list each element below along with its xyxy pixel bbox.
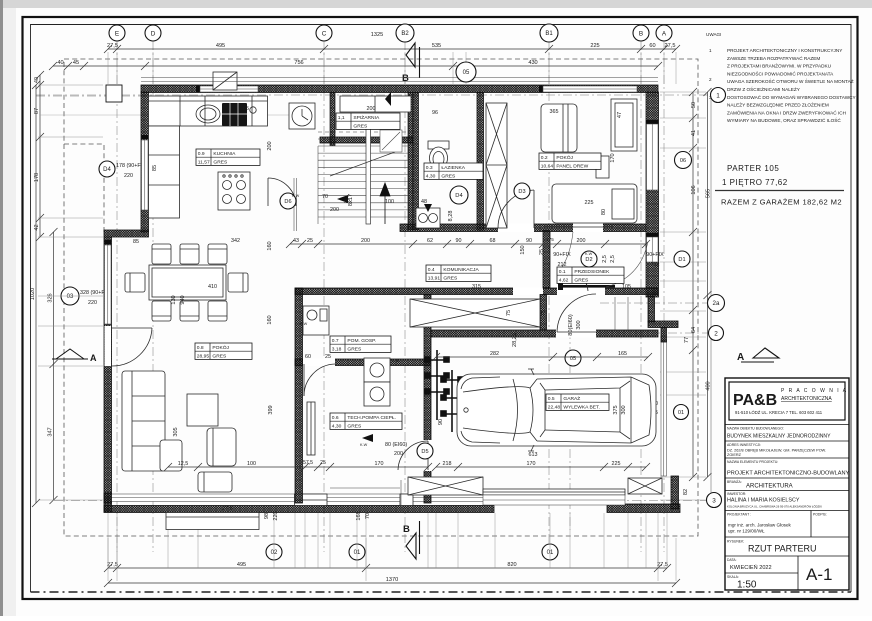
svg-text:D5: D5 (421, 449, 428, 455)
extension lines right (660, 92, 706, 500)
bottom axis bubble 02 (266, 544, 282, 560)
title row data/skala/A-1 (725, 555, 849, 557)
svg-text:POKÓJ: POKÓJ (212, 344, 229, 351)
window bubble 06 (675, 152, 692, 169)
svg-text:GRES: GRES (441, 173, 456, 179)
entry sill line (330, 480, 401, 512)
right axis bubble 1 (711, 88, 726, 103)
bottom wall pier right white (400, 494, 413, 506)
svg-text:48: 48 (421, 199, 427, 205)
svg-text:0.3: 0.3 (426, 165, 433, 171)
title row inwestor (725, 490, 849, 492)
svg-text:90+FIX: 90+FIX (646, 252, 664, 258)
washer units (364, 358, 390, 406)
svg-text:ZGIERZ: ZGIERZ (727, 453, 742, 457)
spizarnia partition (330, 93, 335, 146)
svg-text:4,30: 4,30 (332, 423, 342, 429)
svg-text:mgr inż. arch. Jarosław Głose: mgr inż. arch. Jarosław Głosek (728, 523, 792, 528)
svg-text:756: 756 (294, 60, 303, 66)
garage right wall top pier (661, 328, 667, 343)
svg-text:GRES: GRES (212, 353, 227, 359)
terrace slab (166, 513, 259, 530)
svg-text:170: 170 (375, 461, 384, 467)
svg-text:60: 60 (305, 354, 311, 360)
corridor wall opening at entry (557, 288, 605, 296)
svg-text:B1: B1 (545, 31, 553, 37)
svg-text:PANEL DREW: PANEL DREW (556, 163, 588, 169)
kitchen sink (196, 105, 220, 123)
svg-text:INWESTOR:: INWESTOR: (727, 492, 746, 496)
svg-text:80: 80 (601, 209, 607, 215)
svg-text:02: 02 (271, 550, 278, 556)
svg-text:1: 1 (716, 92, 720, 99)
door D2 swing (563, 268, 588, 291)
svg-text:64: 64 (691, 327, 697, 333)
svg-text:KOMUNIKACJA: KOMUNIKACJA (443, 267, 479, 273)
exterior wall right step-out vertical (648, 296, 655, 322)
grid axis line 1 horizontal (36, 94, 711, 96)
svg-text:326: 326 (48, 293, 54, 302)
svg-text:0.6: 0.6 (332, 415, 339, 421)
svg-text:DRZW Z OŚCIEŻNICAMI NALEŻY: DRZW Z OŚCIEŻNICAMI NALEŻY (727, 85, 801, 92)
svg-text:PARTER 105: PARTER 105 (727, 164, 779, 173)
left dim chain inner (34, 71, 44, 241)
svg-text:399: 399 (268, 405, 274, 414)
corridor wall opening left (513, 288, 543, 296)
small black arrow top stairs (385, 92, 391, 106)
svg-text:100: 100 (247, 461, 256, 467)
svg-text:105: 105 (622, 284, 631, 290)
terrace door opening left (105, 326, 112, 366)
svg-text:06: 06 (680, 158, 686, 164)
svg-text:90: 90 (526, 238, 532, 244)
svg-text:27,5: 27,5 (222, 506, 233, 512)
svg-text:D1: D1 (678, 257, 685, 263)
svg-text:GRES: GRES (443, 275, 458, 281)
svg-text:GARAŻ: GARAŻ (563, 395, 580, 402)
svg-text:E: E (115, 30, 119, 37)
exterior wall bottom living room glazing (111, 494, 494, 502)
svg-text:25: 25 (325, 354, 331, 360)
interior wall pom.gosp horizontal (295, 359, 430, 366)
svg-text:170: 170 (527, 461, 536, 467)
svg-text:200: 200 (330, 207, 339, 213)
svg-text:212: 212 (558, 262, 567, 268)
armchair (207, 428, 236, 466)
svg-text:80(EI60): 80(EI60) (568, 314, 574, 336)
svg-text:11,57: 11,57 (198, 159, 210, 165)
bathroom door triangle (424, 204, 432, 212)
interior dims row mid (286, 238, 650, 248)
bathroom washbasin (416, 208, 440, 228)
interior wall przedsionek left (543, 231, 550, 289)
svg-text:RZUT PARTERU: RZUT PARTERU (748, 544, 817, 554)
right axis bubble 2 (709, 326, 724, 341)
terrace door leaf and swing (112, 328, 152, 366)
svg-text:27,5: 27,5 (657, 562, 668, 568)
title row nazwa obiektu (725, 424, 849, 426)
svg-text:342: 342 (231, 238, 240, 244)
bottom wall pier mid white (295, 494, 328, 506)
svg-text:535: 535 (432, 43, 441, 49)
svg-text:2: 2 (709, 77, 712, 82)
left dim overall 1020 (30, 81, 40, 507)
svg-text:41: 41 (691, 130, 697, 136)
svg-text:K.W: K.W (585, 252, 593, 256)
svg-text:01: 01 (547, 550, 554, 556)
svg-text:PODPIS:: PODPIS: (813, 513, 827, 517)
door arc bedroom right window D1 (606, 242, 648, 287)
porch column centerlines (36, 95, 150, 97)
svg-text:218: 218 (443, 461, 452, 467)
garage door panel (483, 489, 625, 495)
svg-text:D4: D4 (103, 167, 111, 173)
void crossed box above garage (410, 299, 540, 327)
svg-text:10,64: 10,64 (541, 163, 554, 169)
svg-text:BRANŻA:: BRANŻA: (727, 479, 742, 484)
svg-text:B: B (403, 524, 410, 535)
svg-text:565: 565 (706, 189, 712, 198)
heat pump symbol 2 (441, 370, 463, 432)
svg-text:PROJEKTANT :: PROJEKTANT : (727, 513, 751, 517)
svg-text:65: 65 (243, 106, 249, 112)
svg-text:200: 200 (367, 106, 376, 112)
svg-text:NIEZGODNOŚCI POWIADOMIĆ PROJEK: NIEZGODNOŚCI POWIADOMIĆ PROJEKTANATA (727, 69, 834, 76)
garage lintel left (408, 477, 483, 495)
svg-text:B2: B2 (401, 31, 409, 37)
ottoman bench (198, 472, 232, 492)
svg-text:WYMIARY NA BUDOWIE, ORAZ SPRA: WYMIARY NA BUDOWIE, ORAZ SPRAWDZIĆ ILOŚĆ (727, 116, 841, 123)
svg-text:4,30: 4,30 (426, 173, 436, 179)
svg-text:43: 43 (293, 238, 299, 244)
svg-text:D4: D4 (455, 193, 463, 199)
svg-text:1370: 1370 (386, 577, 398, 583)
svg-text:225: 225 (590, 43, 599, 49)
svg-text:05: 05 (463, 70, 470, 76)
exterior wall right step-out horizontal (648, 321, 678, 328)
bottom axis bubble 01b (542, 544, 558, 560)
D2 window swing arc (559, 232, 573, 271)
svg-text:3: 3 (712, 497, 716, 504)
door D6 kitchen (268, 178, 296, 206)
bedroom bed 2 (552, 184, 637, 223)
kitchen corridor thin partition (294, 178, 297, 231)
top dim chain 1 (104, 43, 680, 53)
svg-text:165: 165 (618, 351, 627, 357)
title row adres (725, 440, 849, 442)
svg-text:B: B (402, 73, 409, 84)
svg-text:96: 96 (432, 110, 438, 116)
stairs break line (330, 152, 395, 176)
svg-text:GRES: GRES (347, 346, 362, 352)
dining chair left (125, 273, 145, 292)
room label PRZEDSIONEK (557, 267, 624, 283)
exterior wall bottom sill hatch (104, 506, 494, 513)
grid bubble D (145, 25, 161, 41)
right dim chain inner (689, 88, 697, 481)
svg-text:57,5: 57,5 (303, 460, 313, 466)
window top kitchen (200, 86, 258, 92)
svg-text:375: 375 (613, 405, 619, 414)
bedroom wardrobe top right (611, 99, 637, 151)
svg-text:28,95: 28,95 (197, 353, 210, 359)
interior wall bath left vertical (413, 93, 419, 230)
title row branza (725, 477, 849, 479)
svg-text:GRES: GRES (353, 123, 368, 129)
extension lines bottom (108, 513, 667, 568)
exterior wall left upper (141, 92, 149, 232)
door D5 arc (398, 441, 428, 470)
exterior wall right (646, 92, 659, 297)
svg-text:upr. nr 129/00/WŁ: upr. nr 129/00/WŁ (728, 529, 765, 534)
door garage-house arc (557, 294, 596, 332)
window left D4 (142, 140, 149, 210)
svg-text:01: 01 (354, 550, 361, 556)
svg-text:225: 225 (612, 461, 621, 467)
svg-text:300: 300 (576, 320, 582, 329)
svg-text:75: 75 (506, 310, 512, 316)
bedroom window D2 opening (573, 224, 603, 233)
svg-text:820: 820 (507, 562, 516, 568)
interior wall garage left vertical (424, 295, 431, 504)
garage apron (483, 495, 625, 505)
svg-text:27,5: 27,5 (107, 562, 118, 568)
svg-text:2: 2 (714, 330, 718, 337)
svg-text:GRES: GRES (347, 423, 362, 429)
svg-text:87: 87 (34, 108, 40, 114)
svg-text:ARCHITEKTURA: ARCHITEKTURA (746, 484, 793, 490)
door bubble D6 (280, 193, 296, 209)
svg-text:12,5: 12,5 (178, 461, 189, 467)
window bubble 05 top (456, 62, 476, 82)
svg-text:613: 613 (529, 452, 538, 458)
svg-text:160: 160 (267, 315, 273, 324)
exterior wall left lower (104, 237, 112, 503)
svg-text:42: 42 (34, 224, 40, 230)
svg-text:KWIECIEŃ 2022: KWIECIEŃ 2022 (730, 564, 772, 571)
svg-text:PRZEDSIONEK: PRZEDSIONEK (574, 269, 610, 275)
extension lines top (108, 52, 676, 84)
svg-text:430: 430 (528, 60, 537, 66)
svg-text:178: 178 (34, 173, 40, 182)
garage door centerline (569, 330, 571, 530)
svg-text:RYSUNEK:: RYSUNEK: (727, 540, 744, 544)
svg-text:45: 45 (73, 60, 79, 66)
bathroom mirror mark (380, 130, 402, 152)
grid bubble C (316, 25, 332, 41)
svg-text:3: 3 (709, 95, 712, 100)
kitchen island cooktop (218, 172, 250, 210)
room label POKOJ living (195, 343, 252, 359)
svg-text:KUCHNIA: KUCHNIA (213, 151, 236, 157)
grid axis lines vertical (116, 41, 118, 552)
svg-text:ARCHITEKTONICZNA: ARCHITEKTONICZNA (781, 396, 832, 402)
window bubble 01 right (674, 405, 689, 420)
svg-text:495: 495 (237, 562, 246, 568)
interior wall hall/living vertical (295, 288, 303, 503)
svg-text:POM. GOSP.: POM. GOSP. (347, 338, 376, 344)
exterior wall step connector (104, 230, 149, 237)
svg-text:K.W: K.W (392, 359, 400, 363)
svg-text:220: 220 (273, 511, 279, 520)
window top bedroom (543, 86, 637, 92)
svg-text:160: 160 (267, 241, 273, 250)
kitchen faucet dark (222, 103, 247, 126)
svg-text:KOLONIA BRUŻYCA UL. CHABROWA: KOLONIA BRUŻYCA UL. CHABROWA 26 95-070 A… (727, 504, 822, 509)
svg-text:POKÓJ: POKÓJ (556, 154, 573, 161)
svg-text:2,5: 2,5 (602, 255, 608, 263)
svg-text:PROJEKT ARCHITEKTONICZNO-BUDOW: PROJEKT ARCHITEKTONICZNO-BUDOWLANY (727, 471, 850, 477)
svg-text:1:50: 1:50 (737, 580, 757, 591)
svg-text:PROJEKT ARCHITEKTONICZNY I KON: PROJEKT ARCHITEKTONICZNY I KONSTRUKCYJNY (727, 48, 843, 53)
exterior wall top (141, 85, 658, 93)
svg-text:220: 220 (88, 300, 97, 306)
door pom gosp arc (304, 364, 335, 396)
coffee table (187, 394, 218, 426)
svg-text:ZAMÓWIENIA NA OKNA I DRZW ZWER: ZAMÓWIENIA NA OKNA I DRZW ZWERYFIKOWAĆ I… (727, 109, 846, 115)
svg-text:305: 305 (173, 427, 179, 436)
bottom dim chain 1 (104, 562, 671, 572)
bottom axis bubble 01 (349, 544, 365, 560)
svg-text:1 PIĘTRO 77,62: 1 PIĘTRO 77,62 (722, 178, 788, 187)
kitchen counter centerline (40, 114, 312, 116)
svg-text:A: A (90, 353, 97, 363)
svg-text:1: 1 (709, 48, 712, 53)
garage house door opening (556, 330, 596, 338)
svg-text:ŁAZIENKA: ŁAZIENKA (441, 165, 465, 171)
dining chair right (228, 273, 248, 292)
svg-text:85: 85 (152, 165, 158, 171)
grid bubble A (656, 25, 672, 41)
right axis bubble 2a (708, 295, 725, 312)
room label KOMUNIKACJA (426, 265, 491, 281)
stairs walk line arrow (380, 183, 390, 224)
interior wall bath bottom (400, 224, 646, 232)
svg-text:P R A C O W N I A: P R A C O W N I A (781, 388, 848, 394)
door bubble D2 (581, 251, 597, 267)
svg-text:200: 200 (267, 141, 273, 150)
grid axis line 3 horizontal (54, 500, 706, 502)
extension lines left (38, 85, 103, 500)
svg-text:25: 25 (539, 249, 545, 255)
svg-text:347: 347 (48, 427, 54, 436)
svg-text:200: 200 (394, 451, 403, 457)
pom.gosp door opening (303, 359, 335, 367)
chimney block on top wall (213, 72, 237, 90)
right dim chain outer (704, 88, 712, 481)
door bubble D5 (417, 443, 433, 459)
door D3 bedroom arc (498, 190, 534, 228)
svg-text:UWAGI: UWAGI (706, 32, 721, 37)
roof outline notch step (64, 144, 104, 232)
door bubble D4 bath (450, 186, 468, 204)
svg-text:106: 106 (691, 185, 697, 194)
svg-text:168: 168 (356, 511, 362, 520)
svg-text:DATA:: DATA: (727, 558, 737, 562)
dining chairs top row (152, 244, 171, 264)
room label TECH POMPA (330, 413, 402, 429)
svg-text:GRES: GRES (213, 159, 228, 165)
svg-text:300: 300 (621, 405, 627, 414)
svg-text:PA&B: PA&B (733, 392, 777, 409)
svg-text:940: 940 (180, 295, 186, 304)
garage right wall bottom pier (671, 476, 679, 509)
right axis connector line (710, 95, 712, 500)
room label POKOJ bedroom (539, 153, 601, 169)
grid bubble E (109, 25, 125, 41)
svg-text:28,25: 28,25 (512, 333, 518, 347)
dining chairs bottom row (152, 301, 171, 321)
porch step lines (615, 297, 628, 330)
title row nazwa elementu (725, 457, 849, 459)
svg-text:60: 60 (649, 43, 655, 49)
right axis bubble 3 (707, 493, 722, 508)
svg-text:90+FIX: 90+FIX (553, 252, 571, 258)
window right D1 (647, 237, 659, 262)
garage outer wall right stub (607, 504, 680, 513)
svg-text:92: 92 (344, 199, 350, 205)
porch column (106, 85, 122, 102)
svg-text:13,91: 13,91 (428, 275, 441, 281)
svg-text:200: 200 (577, 238, 586, 244)
eave lines above top wall (141, 77, 658, 79)
svg-text:0.1: 0.1 (559, 269, 566, 275)
svg-text:NAZWA ELEMENTU PROJEKTU:: NAZWA ELEMENTU PROJEKTU: (727, 460, 778, 464)
svg-text:1325: 1325 (371, 32, 383, 38)
entry threshold thick (563, 285, 615, 288)
window right 06 168 (647, 124, 659, 190)
bottom wall pier left corner (104, 493, 112, 512)
svg-text:4,62: 4,62 (559, 277, 569, 283)
stairs right partition (408, 93, 413, 230)
heat pump symbol 1 (425, 350, 449, 420)
svg-text:NALEŻY BEZWZGLĘDNIE PRZED ZŁOŻ: NALEŻY BEZWZGLĘDNIE PRZED ZŁOŻENIEM (727, 102, 829, 108)
svg-text:BUDYNEK MIESZKALNY JEDNORODZIN: BUDYNEK MIESZKALNY JEDNORODZINNY (727, 434, 831, 440)
svg-text:70: 70 (322, 194, 328, 200)
svg-text:3,18: 3,18 (332, 346, 342, 352)
title row projektant (725, 510, 849, 512)
svg-text:98: 98 (264, 513, 270, 519)
svg-text:25: 25 (320, 460, 326, 466)
couch L-shaped (122, 371, 165, 471)
grid axis line 2a horizontal (600, 302, 708, 304)
svg-text:K.W: K.W (360, 443, 368, 447)
svg-text:DZ. 262/8 OBRĘB MIKOŁAJEW, GM.: DZ. 262/8 OBRĘB MIKOŁAJEW, GM. PARZĘCZEW… (727, 449, 826, 453)
dining table (149, 265, 226, 300)
pom gosp sink unit (303, 306, 329, 335)
svg-text:K.W: K.W (300, 322, 308, 326)
svg-text:HALINA I MARIA KOSIELSCY: HALINA I MARIA KOSIELSCY (727, 498, 800, 504)
window jamb blocks (646, 120, 659, 124)
svg-text:225: 225 (585, 200, 594, 206)
kitchen counter top (149, 96, 268, 126)
roof overhang dashed outline (64, 59, 698, 536)
svg-text:A: A (662, 30, 667, 37)
door bubble D1 (674, 251, 690, 267)
svg-text:80 (EI60): 80 (EI60) (385, 442, 407, 448)
door bubble D3 (514, 183, 530, 199)
grid bubble B1 (540, 24, 558, 42)
extension lines bottom chains (108, 538, 676, 581)
svg-text:62: 62 (427, 238, 433, 244)
svg-text:68: 68 (490, 238, 496, 244)
svg-text:200: 200 (361, 238, 370, 244)
svg-text:GRES: GRES (574, 277, 589, 283)
couch chaise (160, 440, 182, 471)
svg-text:410: 410 (208, 284, 217, 290)
room label POM GOSP (330, 336, 391, 352)
svg-text:D6: D6 (284, 199, 291, 205)
